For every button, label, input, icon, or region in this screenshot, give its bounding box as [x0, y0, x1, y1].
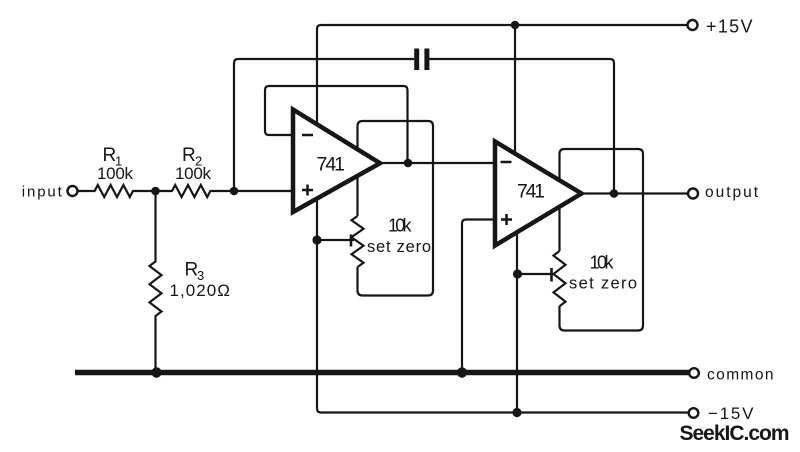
svg-text:100k: 100k [175, 164, 212, 183]
svg-text:set zero: set zero [367, 238, 431, 256]
svg-text:SeekIC.com: SeekIC.com [680, 422, 790, 445]
svg-text:10k: 10k [388, 216, 413, 236]
svg-text:+15V: +15V [706, 17, 753, 37]
svg-text:R: R [182, 145, 196, 166]
svg-text:output: output [705, 184, 759, 201]
svg-text:1,020Ω: 1,020Ω [170, 281, 231, 300]
svg-text:741: 741 [517, 181, 545, 203]
svg-text:100k: 100k [97, 164, 134, 183]
svg-text:10k: 10k [590, 253, 615, 273]
svg-text:741: 741 [317, 154, 346, 176]
svg-text:−15V: −15V [708, 404, 754, 423]
